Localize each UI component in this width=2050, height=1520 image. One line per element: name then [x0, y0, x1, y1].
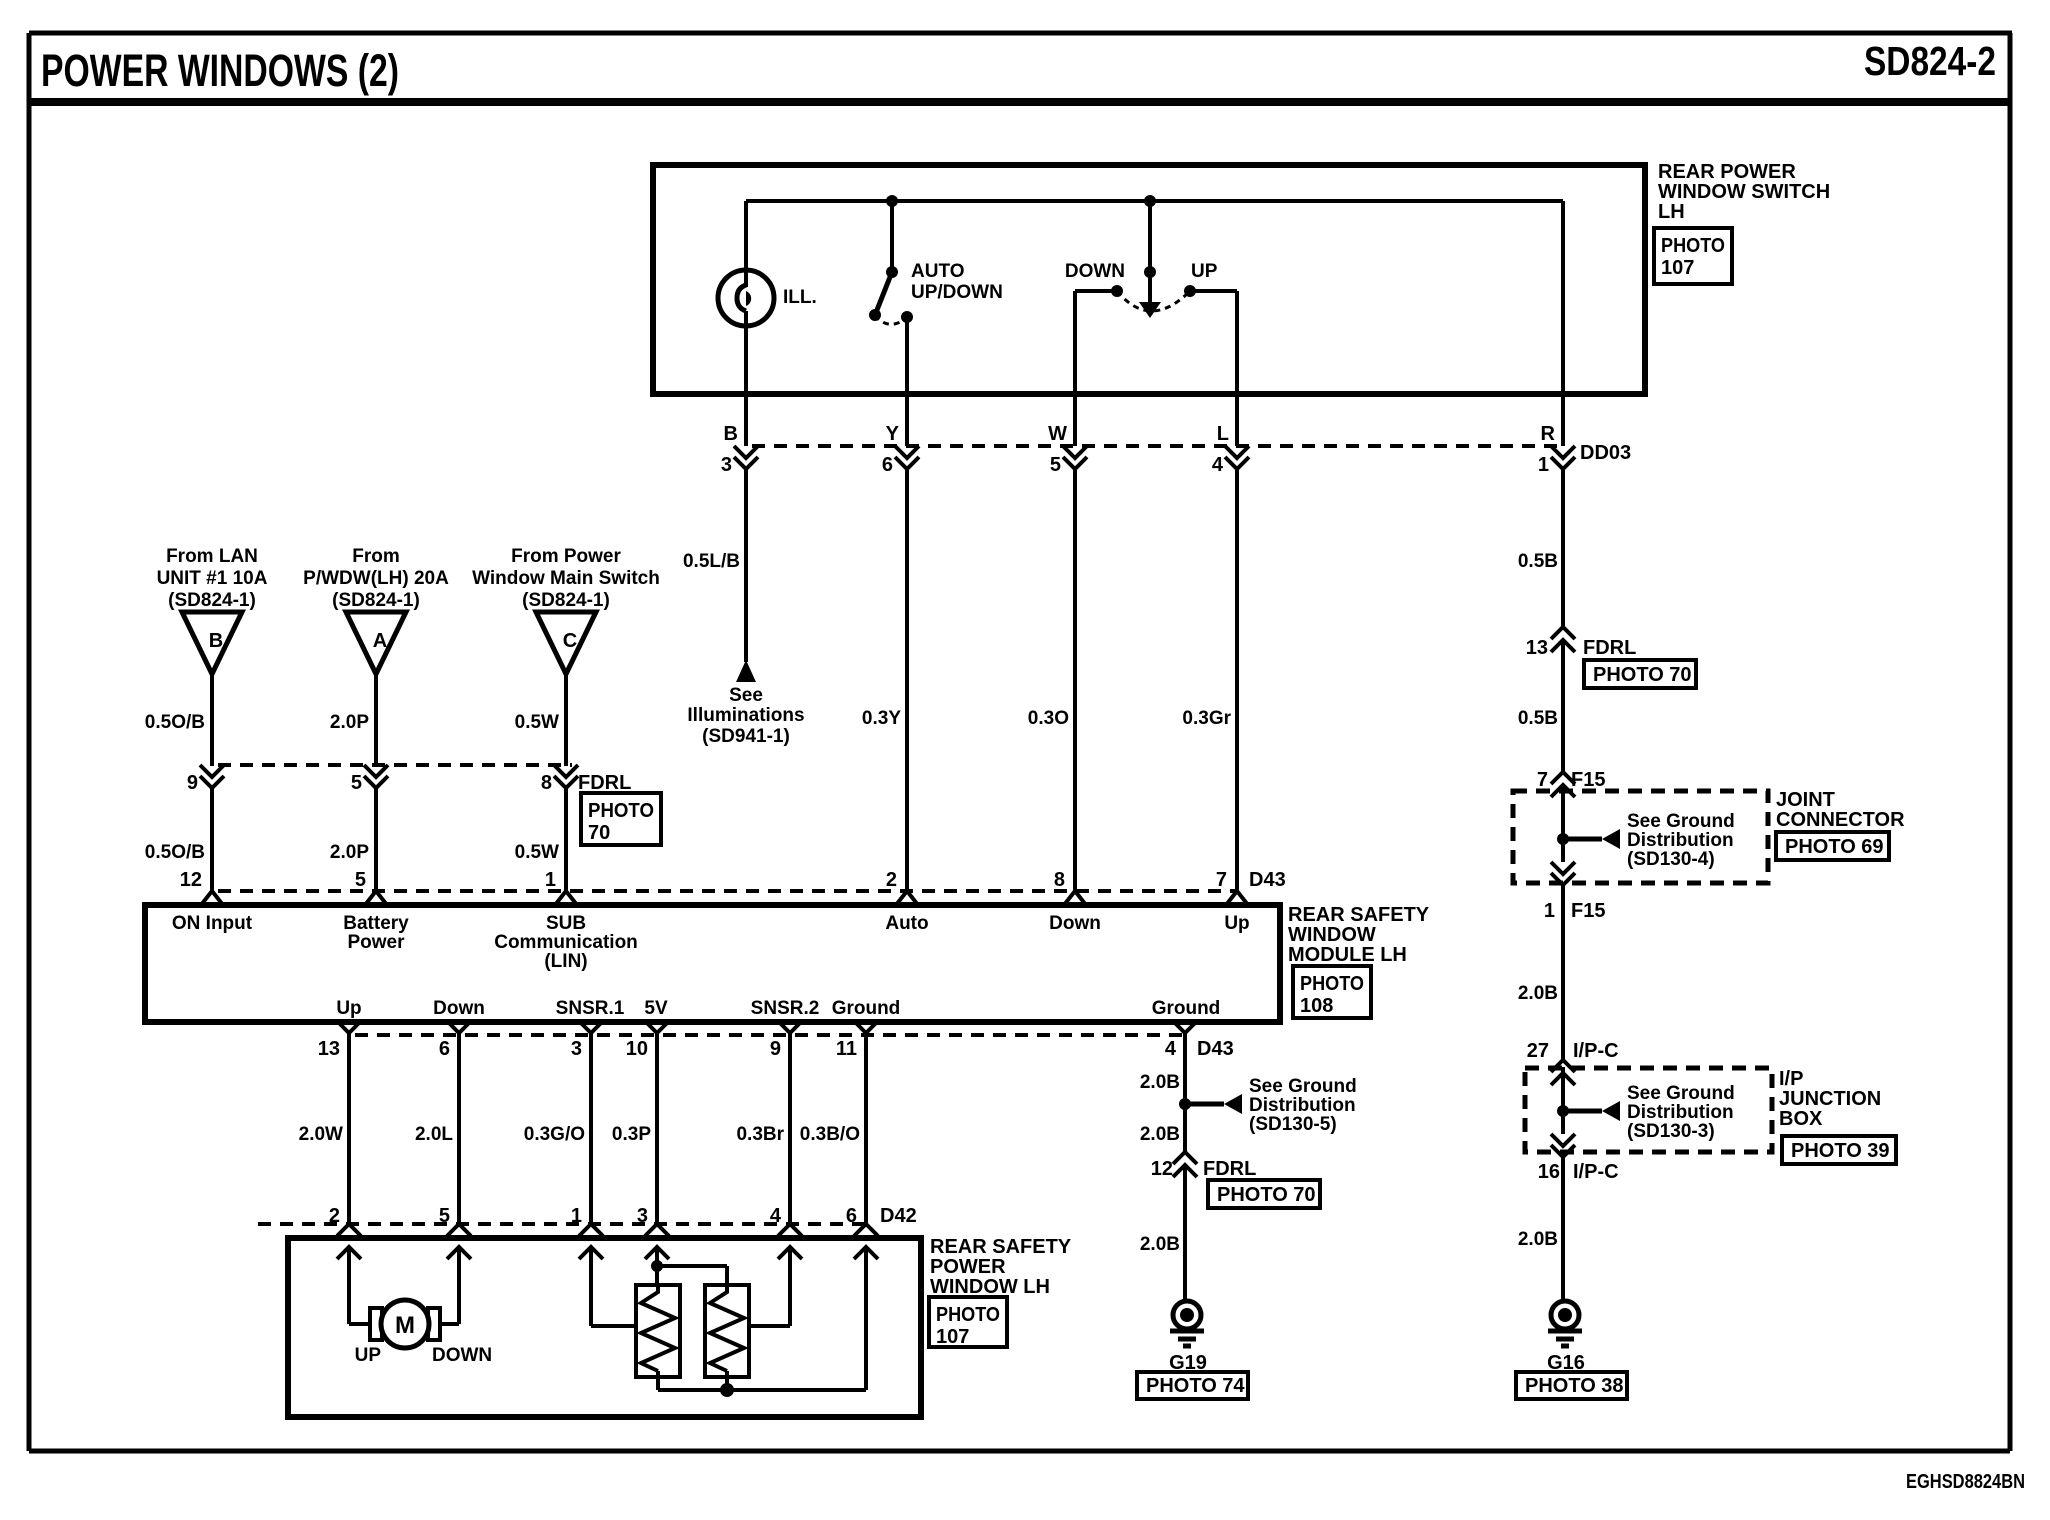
svg-text:2.0B: 2.0B — [1140, 1234, 1180, 1255]
pin 7 F15 — [1551, 772, 1575, 784]
see illuminations arrow — [736, 660, 756, 682]
wire 0.3Br — [788, 1033, 792, 1224]
svg-text:PHOTO 70: PHOTO 70 — [1593, 664, 1692, 686]
pin 16 I/P-C — [1551, 1134, 1575, 1146]
svg-text:UNIT #1 10A: UNIT #1 10A — [157, 568, 268, 589]
wire: switch internal bus — [746, 199, 1563, 203]
connector D43 top dashed row — [218, 889, 1237, 893]
svg-text:POWER: POWER — [930, 1256, 1006, 1278]
svg-text:WINDOW LH: WINDOW LH — [930, 1276, 1050, 1298]
svg-text:Communication: Communication — [494, 932, 638, 953]
svg-text:I/P: I/P — [1779, 1068, 1803, 1090]
photo box PHOTO 38 — [1516, 1372, 1627, 1399]
svg-text:PHOTO: PHOTO — [1661, 235, 1725, 257]
svg-text:2.0B: 2.0B — [1140, 1124, 1180, 1145]
resistor R1 — [636, 1285, 680, 1377]
svg-text:(SD130-5): (SD130-5) — [1249, 1114, 1337, 1135]
svg-text:POWER WINDOWS (2): POWER WINDOWS (2) — [41, 45, 399, 96]
svg-text:SUB: SUB — [546, 913, 586, 934]
lamp ILL — [744, 201, 748, 287]
node: bus / up-down switch — [1144, 195, 1156, 207]
svg-text:BOX: BOX — [1779, 1108, 1823, 1130]
svg-text:0.3Br: 0.3Br — [736, 1124, 784, 1145]
photo box PHOTO 70 (right col) — [1584, 660, 1696, 688]
svg-text:70: 70 — [588, 822, 610, 844]
svg-text:0.5W: 0.5W — [515, 842, 559, 863]
svg-text:11: 11 — [836, 1038, 857, 1060]
svg-text:See Ground: See Ground — [1627, 1083, 1735, 1104]
svg-text:7: 7 — [1216, 869, 1227, 891]
ground G16 — [1551, 1301, 1579, 1329]
svg-text:0.3Gr: 0.3Gr — [1182, 708, 1231, 729]
svg-text:DOWN: DOWN — [432, 1345, 492, 1366]
svg-text:Distribution: Distribution — [1249, 1095, 1356, 1116]
svg-text:(SD824-1): (SD824-1) — [522, 590, 610, 611]
svg-text:0.5O/B: 0.5O/B — [145, 712, 205, 733]
wire Y inside box — [905, 317, 909, 446]
wire 2.0B (F15 to I/P-C) — [1561, 885, 1565, 1060]
svg-text:0.5B: 0.5B — [1518, 551, 1558, 572]
svg-text:1: 1 — [571, 1205, 582, 1227]
svg-text:6: 6 — [846, 1205, 857, 1227]
rear safety power window LH box — [288, 1238, 921, 1417]
svg-text:F15: F15 — [1571, 769, 1605, 791]
wire pin4 SNSR.2 — [788, 1247, 792, 1326]
rear power window switch LH box — [653, 165, 1645, 394]
svg-text:Ground: Ground — [832, 998, 901, 1019]
svg-text:WINDOW SWITCH: WINDOW SWITCH — [1658, 181, 1830, 203]
joint connector dashed box — [1513, 791, 1768, 883]
wire from C triangle — [564, 674, 568, 766]
pin 1 F15 — [1551, 862, 1575, 874]
svg-text:See Ground: See Ground — [1249, 1076, 1357, 1097]
svg-text:2: 2 — [886, 869, 897, 891]
wire inside I/P junction box — [1561, 1067, 1565, 1134]
svg-text:See Ground: See Ground — [1627, 811, 1735, 832]
svg-text:2.0W: 2.0W — [299, 1124, 343, 1145]
svg-text:PHOTO: PHOTO — [588, 800, 654, 822]
svg-text:2.0P: 2.0P — [330, 712, 369, 733]
wire 2.0W — [347, 1033, 351, 1224]
svg-text:W: W — [1048, 423, 1067, 445]
svg-text:I/P-C: I/P-C — [1573, 1040, 1619, 1062]
wire pin1 SNSR.1 — [589, 1247, 593, 1326]
svg-text:SD824-2: SD824-2 — [1864, 38, 1996, 84]
svg-text:0.5W: 0.5W — [515, 712, 559, 733]
svg-text:From LAN: From LAN — [166, 546, 258, 567]
svg-text:0.3Y: 0.3Y — [862, 708, 901, 729]
wire 0.3Y — [905, 469, 909, 891]
svg-text:REAR SAFETY: REAR SAFETY — [1288, 904, 1430, 926]
wire pin3 5V — [655, 1247, 659, 1285]
photo box PHOTO 107 (switch) — [1654, 228, 1732, 284]
wire 0.5W lower — [564, 788, 568, 891]
wire 2.0B to G16 — [1561, 1157, 1565, 1302]
svg-text:PHOTO 38: PHOTO 38 — [1525, 1375, 1624, 1397]
wire 5V to R2 — [657, 1264, 727, 1268]
motor M — [370, 1308, 382, 1340]
svg-text:5V: 5V — [644, 998, 668, 1019]
svg-text:UP: UP — [355, 1345, 382, 1366]
svg-text:Distribution: Distribution — [1627, 830, 1734, 851]
svg-text:M: M — [395, 1312, 415, 1339]
svg-text:0.3P: 0.3P — [612, 1124, 651, 1145]
wire 2.0B (module ground) — [1183, 1033, 1187, 1152]
wire L inside box — [1190, 289, 1237, 293]
svg-text:REAR POWER: REAR POWER — [1658, 161, 1796, 183]
svg-text:DOWN: DOWN — [1065, 261, 1125, 282]
svg-text:WINDOW: WINDOW — [1288, 924, 1376, 946]
ground G19 — [1173, 1301, 1201, 1329]
svg-text:8: 8 — [1054, 869, 1065, 891]
resistor R2 — [705, 1285, 749, 1377]
ground distribution tap SD130-5 — [1179, 1098, 1191, 1110]
pin 13 FDRL — [1551, 627, 1575, 639]
wire 0.5O/B lower — [210, 788, 214, 891]
wire 0.5B upper — [1561, 469, 1565, 627]
wire B inside box — [744, 311, 748, 446]
svg-text:9: 9 — [187, 772, 198, 794]
svg-text:FDRL: FDRL — [1583, 637, 1636, 659]
switch AUTO UP/DOWN — [890, 201, 894, 272]
svg-text:6: 6 — [882, 454, 893, 476]
svg-text:Ground: Ground — [1152, 998, 1221, 1019]
wire from A triangle — [374, 674, 378, 766]
svg-text:B: B — [724, 423, 738, 445]
svg-text:13: 13 — [1526, 637, 1548, 659]
svg-text:JOINT: JOINT — [1776, 789, 1835, 811]
svg-text:Auto: Auto — [885, 913, 928, 934]
svg-text:LH: LH — [1658, 201, 1685, 223]
node: bus / auto switch — [886, 195, 898, 207]
svg-text:PHOTO: PHOTO — [936, 1304, 1000, 1326]
svg-text:(SD130-3): (SD130-3) — [1627, 1121, 1715, 1142]
wire 0.5L/B — [744, 469, 748, 662]
svg-text:I/P-C: I/P-C — [1573, 1161, 1619, 1183]
svg-text:Down: Down — [1049, 913, 1101, 934]
svg-text:Down: Down — [433, 998, 485, 1019]
svg-text:13: 13 — [318, 1038, 340, 1060]
svg-text:Distribution: Distribution — [1627, 1102, 1734, 1123]
svg-text:REAR SAFETY: REAR SAFETY — [930, 1236, 1072, 1258]
svg-text:107: 107 — [936, 1326, 969, 1348]
svg-text:FDRL: FDRL — [1203, 1158, 1256, 1180]
svg-text:3: 3 — [637, 1205, 648, 1227]
svg-text:2.0P: 2.0P — [330, 842, 369, 863]
wire inside joint connector — [1561, 785, 1565, 862]
photo box PHOTO 70 (FDRL) — [581, 793, 661, 845]
svg-text:ILL.: ILL. — [783, 287, 817, 308]
wire pin6 ground — [864, 1247, 868, 1390]
wire R1 bottom — [656, 1371, 660, 1390]
svg-text:5: 5 — [1050, 454, 1061, 476]
svg-text:27: 27 — [1527, 1040, 1549, 1062]
svg-text:(SD941-1): (SD941-1) — [702, 726, 790, 747]
svg-text:CONNECTOR: CONNECTOR — [1776, 809, 1905, 831]
connector D42 dashed row — [258, 1222, 870, 1226]
wire 0.3P — [655, 1033, 659, 1224]
svg-text:3: 3 — [571, 1038, 582, 1060]
svg-text:108: 108 — [1300, 995, 1333, 1017]
svg-text:8: 8 — [541, 772, 552, 794]
svg-text:Up: Up — [336, 998, 361, 1019]
svg-text:SNSR.1: SNSR.1 — [556, 998, 625, 1019]
svg-text:Y: Y — [886, 423, 900, 445]
wire R inside box — [1561, 201, 1565, 446]
photo box PHOTO 108 — [1293, 966, 1371, 1018]
svg-text:2.0B: 2.0B — [1518, 983, 1558, 1004]
svg-text:SNSR.2: SNSR.2 — [751, 998, 820, 1019]
svg-text:PHOTO 74: PHOTO 74 — [1146, 1375, 1245, 1397]
svg-text:R: R — [1541, 423, 1556, 445]
svg-text:2: 2 — [329, 1205, 340, 1227]
svg-text:9: 9 — [770, 1038, 781, 1060]
svg-text:UP/DOWN: UP/DOWN — [911, 282, 1003, 303]
photo box PHOTO 70 (G19 branch) — [1208, 1180, 1320, 1208]
svg-text:0.5L/B: 0.5L/B — [683, 551, 740, 572]
svg-text:UP: UP — [1191, 261, 1218, 282]
connector DD03 dashed row — [752, 444, 1563, 448]
svg-text:1: 1 — [545, 869, 556, 891]
svg-text:7: 7 — [1537, 769, 1548, 791]
svg-text:PHOTO 69: PHOTO 69 — [1785, 836, 1884, 858]
wire 2.0L — [457, 1033, 461, 1224]
switch DOWN/UP — [1148, 201, 1152, 272]
svg-text:(SD824-1): (SD824-1) — [332, 590, 420, 611]
svg-text:A: A — [373, 630, 387, 652]
svg-text:4: 4 — [1212, 454, 1224, 476]
svg-text:0.3G/O: 0.3G/O — [524, 1124, 585, 1145]
photo box PHOTO 74 — [1137, 1372, 1248, 1399]
svg-text:F15: F15 — [1571, 900, 1605, 922]
wire R2 bottom — [725, 1371, 729, 1390]
connector FDRL dashed row — [218, 763, 572, 767]
svg-text:1: 1 — [1544, 900, 1555, 922]
svg-text:PHOTO 70: PHOTO 70 — [1217, 1184, 1316, 1206]
svg-text:PHOTO 39: PHOTO 39 — [1791, 1140, 1890, 1162]
I/P junction box dashed box — [1525, 1068, 1772, 1152]
svg-text:4: 4 — [770, 1205, 782, 1227]
svg-text:12: 12 — [180, 869, 202, 891]
svg-text:MODULE LH: MODULE LH — [1288, 944, 1407, 966]
svg-text:DD03: DD03 — [1580, 442, 1631, 464]
svg-text:C: C — [563, 630, 577, 652]
svg-text:107: 107 — [1661, 257, 1694, 279]
svg-text:16: 16 — [1538, 1161, 1560, 1183]
wire 0.3O — [1073, 469, 1077, 891]
photo box PHOTO 39 — [1782, 1136, 1896, 1164]
svg-text:FDRL: FDRL — [578, 772, 631, 794]
wire pin5 to motor DOWN — [457, 1247, 461, 1324]
svg-text:0.5O/B: 0.5O/B — [145, 842, 205, 863]
wire 0.3B/O — [864, 1033, 868, 1224]
svg-text:Up: Up — [1224, 913, 1249, 934]
wire 2.0P lower — [374, 788, 378, 891]
svg-text:0.3B/O: 0.3B/O — [800, 1124, 860, 1145]
svg-text:Power: Power — [347, 932, 405, 953]
svg-text:5: 5 — [355, 869, 366, 891]
svg-text:B: B — [209, 630, 223, 652]
svg-text:(SD824-1): (SD824-1) — [168, 590, 256, 611]
pin 12 FDRL — [1173, 1152, 1197, 1164]
svg-text:(LIN): (LIN) — [544, 951, 587, 972]
svg-text:EGHSD8824BN: EGHSD8824BN — [1906, 1471, 2025, 1493]
svg-text:2.0L: 2.0L — [415, 1124, 453, 1145]
wire W inside box — [1075, 289, 1117, 293]
svg-text:10: 10 — [626, 1038, 648, 1060]
svg-text:5: 5 — [439, 1205, 450, 1227]
rear safety window module LH box — [145, 905, 1280, 1022]
photo box PHOTO 107 (window) — [929, 1297, 1007, 1347]
svg-text:2.0B: 2.0B — [1518, 1229, 1558, 1250]
svg-text:JUNCTION: JUNCTION — [1779, 1088, 1881, 1110]
svg-text:Battery: Battery — [343, 913, 409, 934]
photo box PHOTO 69 — [1776, 832, 1889, 860]
svg-text:0.3O: 0.3O — [1028, 708, 1069, 729]
svg-text:From Power: From Power — [511, 546, 621, 567]
svg-text:4: 4 — [1165, 1038, 1177, 1060]
svg-text:D43: D43 — [1249, 869, 1286, 891]
svg-text:Illuminations: Illuminations — [687, 705, 804, 726]
svg-text:0.5B: 0.5B — [1518, 708, 1558, 729]
svg-text:Window Main Switch: Window Main Switch — [472, 568, 660, 589]
connector D43 bottom dashed row — [355, 1033, 1185, 1037]
svg-text:AUTO: AUTO — [911, 261, 964, 282]
wire 0.3Gr — [1235, 469, 1239, 891]
ground distribution tap SD130-3 — [1557, 1105, 1569, 1117]
wire 0.3G/O — [589, 1033, 593, 1224]
node 5V split — [651, 1260, 663, 1272]
wire 2.0B to G19 — [1183, 1165, 1187, 1302]
svg-text:P/WDW(LH) 20A: P/WDW(LH) 20A — [303, 568, 449, 589]
svg-text:PHOTO: PHOTO — [1300, 973, 1364, 995]
svg-text:2.0B: 2.0B — [1140, 1072, 1180, 1093]
svg-text:6: 6 — [439, 1038, 450, 1060]
svg-text:D42: D42 — [880, 1205, 917, 1227]
svg-text:12: 12 — [1151, 1158, 1173, 1180]
wire from B triangle — [210, 674, 214, 766]
svg-text:(SD130-4): (SD130-4) — [1627, 849, 1715, 870]
wire pin2 to motor UP — [347, 1247, 351, 1324]
ground distribution tap SD130-4 — [1557, 833, 1569, 845]
svg-text:5: 5 — [351, 772, 362, 794]
svg-text:L: L — [1217, 423, 1229, 445]
pin 27 I/P-C — [1551, 1060, 1575, 1072]
wire 0.5B lower — [1561, 640, 1565, 772]
svg-text:1: 1 — [1538, 454, 1549, 476]
svg-text:3: 3 — [721, 454, 732, 476]
svg-text:ON Input: ON Input — [172, 913, 253, 934]
svg-text:D43: D43 — [1197, 1038, 1234, 1060]
node resistor ground join — [720, 1383, 734, 1397]
svg-text:See: See — [729, 685, 763, 706]
svg-text:From: From — [352, 546, 400, 567]
